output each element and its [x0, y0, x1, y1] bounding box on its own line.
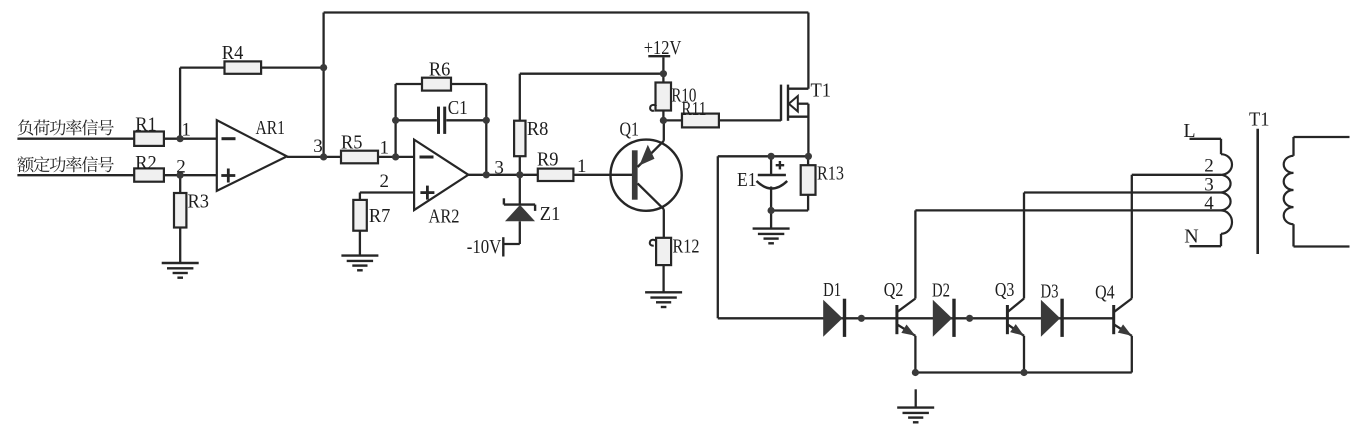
svg-text:AR1: AR1 — [256, 117, 286, 139]
svg-text:R1: R1 — [135, 114, 157, 136]
svg-text:R11: R11 — [681, 98, 706, 120]
svg-text:Q4: Q4 — [1095, 282, 1115, 304]
svg-text:4: 4 — [1204, 193, 1214, 214]
svg-text:1: 1 — [380, 138, 390, 159]
svg-text:R5: R5 — [341, 132, 363, 154]
svg-text:R7: R7 — [369, 205, 391, 227]
svg-text:E1: E1 — [737, 169, 757, 191]
svg-text:R8: R8 — [527, 118, 549, 140]
svg-text:R2: R2 — [135, 152, 157, 174]
svg-text:L: L — [1183, 120, 1195, 142]
svg-text:2: 2 — [1204, 155, 1214, 176]
svg-text:N: N — [1184, 225, 1198, 247]
svg-text:1: 1 — [181, 120, 191, 141]
svg-text:R13: R13 — [817, 163, 844, 185]
svg-text:Z1: Z1 — [540, 203, 561, 225]
svg-text:Q2: Q2 — [884, 279, 904, 301]
svg-text:R6: R6 — [429, 58, 451, 80]
svg-text:1: 1 — [577, 156, 587, 177]
svg-text:D2: D2 — [932, 280, 950, 302]
svg-text:2: 2 — [380, 171, 390, 192]
svg-text:3: 3 — [313, 136, 323, 157]
svg-text:R3: R3 — [188, 191, 210, 213]
svg-text:2: 2 — [176, 157, 186, 178]
svg-text:AR2: AR2 — [429, 206, 460, 228]
svg-text:R4: R4 — [222, 42, 244, 64]
svg-text:Q3: Q3 — [995, 279, 1015, 301]
svg-text:T1: T1 — [811, 80, 832, 102]
svg-text:-10V: -10V — [467, 236, 502, 258]
svg-text:T1: T1 — [1249, 109, 1270, 131]
svg-text:D1: D1 — [823, 279, 841, 301]
svg-text:R12: R12 — [673, 236, 700, 258]
svg-text:R9: R9 — [537, 148, 559, 170]
svg-text:D3: D3 — [1041, 280, 1059, 302]
svg-text:3: 3 — [494, 158, 504, 179]
svg-text:C1: C1 — [448, 97, 468, 119]
svg-text:Q1: Q1 — [620, 118, 640, 140]
svg-text:+12V: +12V — [644, 37, 682, 59]
